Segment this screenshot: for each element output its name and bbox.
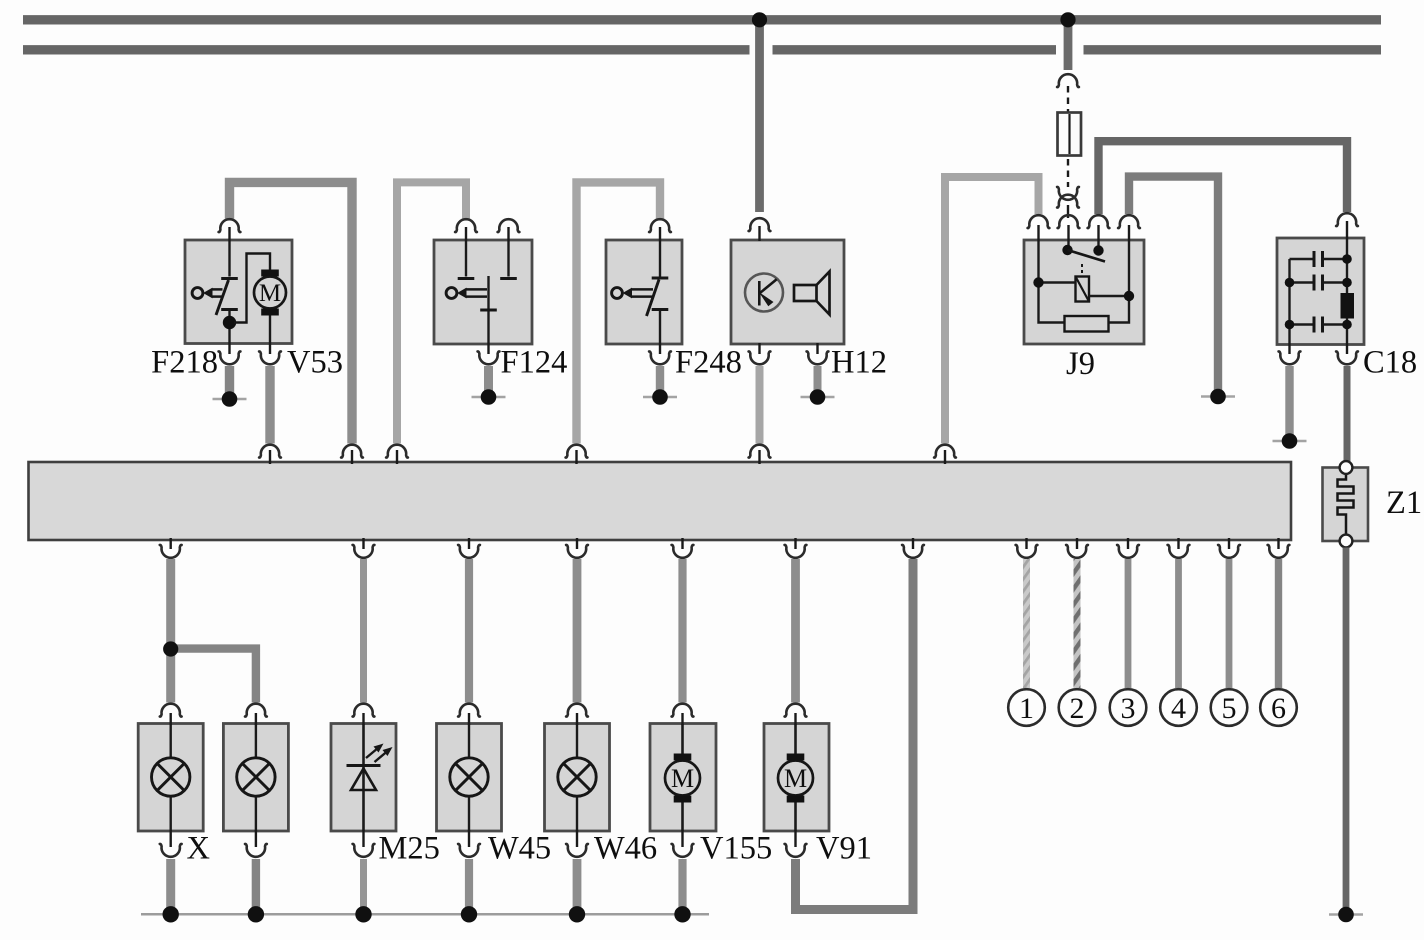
heater meander symbol Z1: [1338, 473, 1354, 536]
wire: W45 to ground bus: [465, 859, 473, 913]
lamp W45 symbol: [450, 758, 488, 796]
ground splice below F248: [643, 389, 677, 405]
svg-text:F248: F248: [675, 345, 742, 381]
wire: motor V91 return to control unit: [796, 559, 914, 910]
switch blade F248: [647, 280, 660, 317]
wire: branch to second tail lamp: [171, 649, 256, 703]
wire: F124 switch feed loop from control unit: [397, 182, 466, 443]
lamp W46 symbol: [558, 758, 596, 796]
connector: C18 bottom-right terminal: [1336, 351, 1358, 364]
svg-text:C18: C18: [1363, 345, 1417, 381]
wire: C18 to ground splice: [1285, 366, 1293, 435]
actuator key F124: [446, 288, 487, 299]
contact bar F218 upper: [221, 277, 238, 280]
pin: H12 output left: [758, 343, 760, 354]
ground splice below F124: [472, 389, 506, 405]
pin: C18 right bus lower: [1346, 318, 1348, 354]
pin: C18 input lead: [1346, 221, 1348, 295]
pin: F248 output: [659, 311, 661, 354]
svg-text:H12: H12: [831, 345, 887, 381]
junction: ground bus at M25: [355, 906, 371, 922]
connector: F124 top-left terminal: [455, 219, 477, 232]
svg-text:M: M: [259, 280, 281, 307]
pin: V53 motor output: [269, 316, 271, 355]
connector: component top terminal: [353, 704, 375, 725]
wire: lead to plug 3: [1125, 559, 1132, 688]
junction: ground bus at X: [163, 906, 179, 922]
wire: coil left lead (internal): [1039, 281, 1076, 283]
pin: H12 output right: [816, 343, 818, 354]
svg-text:M: M: [671, 764, 694, 793]
connector: control unit bottom terminal (plug 4): [1168, 538, 1190, 558]
switch F248 enclosure: [606, 240, 682, 344]
connector: component bottom terminal: [566, 830, 588, 857]
svg-text:V91: V91: [816, 831, 872, 867]
connector: J9 terminal 1: [1028, 215, 1050, 228]
control unit J519 (onboard supply) bar: [29, 462, 1292, 540]
suppressor C18 enclosure: [1277, 238, 1364, 345]
connector: control unit bottom terminal (plug 3): [1117, 538, 1139, 558]
actuator key F248: [612, 288, 653, 299]
svg-text:F124: F124: [501, 345, 568, 381]
connector: component bottom terminal: [160, 830, 182, 857]
svg-text:M: M: [784, 764, 807, 793]
dashed actuator link J9: [1081, 264, 1083, 276]
contact bar F218 lower: [221, 308, 238, 311]
connector: V53 bottom terminal: [259, 351, 281, 364]
connector: component bottom terminal: [245, 830, 267, 857]
plug terminal 6: [1260, 689, 1297, 726]
pin: F218 switch input: [228, 227, 230, 277]
node: C18 right middle: [1342, 278, 1352, 288]
horn / gauge H12 enclosure: [731, 240, 844, 344]
connector: component top terminal: [566, 704, 588, 725]
wire: plus bus (top rail 2), right segment: [1084, 45, 1382, 54]
wire: control unit to lamp X: [166, 559, 175, 703]
connector: component top terminal: [672, 704, 694, 725]
node: Z1 top terminal: [1340, 461, 1353, 474]
relay J9 enclosure: [1024, 240, 1144, 344]
contact bar F124 center: [480, 308, 497, 311]
pin: lamp X leads: [169, 724, 171, 759]
connector: F248 top terminal: [649, 219, 671, 232]
connector: component top terminal: [458, 704, 480, 725]
wire: F218 switch feed loop from control unit: [230, 182, 353, 443]
ground splice below J9 terminal 4: [1201, 389, 1235, 405]
plug terminal 2: [1059, 689, 1096, 726]
wire: J9 terminal 4 to ground splice: [1129, 177, 1218, 390]
wire: F218 to ground splice: [225, 366, 234, 393]
connector: control unit bottom terminal (lamp W45): [458, 538, 480, 558]
heater element Z1 enclosure: [1323, 468, 1369, 542]
node: C18 left middle: [1285, 278, 1295, 288]
fuse S (in-line fuse for J9): [1058, 113, 1082, 156]
svg-text:W46: W46: [594, 831, 657, 867]
pin: F124 right contact: [507, 227, 509, 277]
connector: H12 bottom-right terminal: [807, 351, 829, 364]
wire: striped lead to plug 2: [1074, 559, 1081, 688]
ground splice below F218: [213, 391, 247, 407]
connector: control unit bottom terminal (lamp X): [160, 538, 182, 558]
connector: control unit top terminal (J9 loop): [934, 445, 956, 464]
gauge dial symbol in H12: [745, 274, 783, 312]
wire: coil right lead (internal): [1089, 295, 1129, 297]
junction: ground bus at lamp2: [248, 906, 264, 922]
tail lamp X enclosure: [138, 724, 203, 832]
connector: F248 bottom terminal: [649, 351, 671, 364]
actuator key F218: [192, 288, 222, 299]
pin: F124 left contact: [465, 227, 467, 277]
connector: control unit top terminal (F218 loop): [341, 445, 363, 464]
switch F218 / pump motor V53 enclosure: [185, 240, 292, 344]
pin: J9 terminal 3 lead: [1097, 225, 1099, 251]
wire: control unit to motor V91: [791, 559, 800, 703]
svg-text:J9: J9: [1066, 346, 1095, 382]
junction on rail 1 at J9 feed: [1060, 12, 1075, 27]
node: J9 pin4 to coil: [1124, 291, 1134, 301]
node: J9 common contact: [1062, 245, 1072, 255]
pin: H12 input: [758, 226, 760, 241]
svg-text:V53: V53: [287, 345, 343, 381]
wire: ground bus (bottom rail): [141, 913, 709, 916]
wire: M25 to ground bus: [360, 859, 367, 913]
wire: supply drop to horn H12: [755, 20, 764, 212]
plug terminal 1: [1008, 689, 1045, 726]
svg-text:4: 4: [1171, 692, 1186, 725]
connector: component top terminal: [785, 704, 807, 725]
connector: control unit bottom terminal (plug 2): [1066, 538, 1088, 558]
lamp W45 enclosure: [437, 724, 502, 832]
wire: lead to plug 5: [1226, 559, 1233, 688]
svg-text:Z1: Z1: [1386, 485, 1422, 521]
node: C18 right bottom: [1342, 320, 1352, 330]
pin: J9 terminal 1 lead: [1039, 225, 1065, 323]
connector: control unit bottom terminal (lamp W46): [566, 538, 588, 558]
wire: fuse to connector pair (dashed): [1067, 159, 1069, 187]
connector: J9 terminal 4: [1118, 215, 1140, 228]
motor V53 symbol: [254, 270, 286, 316]
connector: F218 top terminal: [219, 219, 241, 232]
wire: control unit to lamp W45: [465, 559, 473, 703]
wire: supply drop to fuse for relay J9: [1064, 20, 1073, 70]
connector: component bottom terminal: [672, 830, 694, 857]
node: tail lamp branch junction: [163, 641, 178, 656]
switch blade F218: [216, 280, 229, 315]
contact bar F124 right: [500, 277, 517, 280]
pin: F218 switch output: [228, 311, 230, 354]
svg-text:2: 2: [1070, 692, 1085, 725]
capacitor Cc in C18 (bottom): [1290, 317, 1348, 333]
connector: H12 top terminal: [749, 218, 771, 231]
connector above fuse: [1057, 74, 1079, 87]
wire: lead to plug 6: [1275, 559, 1282, 688]
ground splice below C18: [1273, 433, 1307, 449]
connector: component top terminal: [160, 704, 182, 725]
connector: J9 terminal 2: [1058, 215, 1080, 228]
svg-text:F218: F218: [151, 345, 218, 381]
pin: J9 terminal 4 lead: [1109, 225, 1130, 323]
svg-text:6: 6: [1271, 692, 1286, 725]
connector: F218 bottom terminal: [219, 351, 241, 364]
pin: W46 leads: [576, 724, 578, 759]
lamp X symbol: [152, 758, 190, 796]
node: J9 fixed contact: [1093, 245, 1103, 255]
plug terminal 3: [1110, 689, 1147, 726]
contact bar F248 lower: [652, 308, 669, 311]
connector: C18 top terminal: [1336, 213, 1358, 226]
node: F218 output junction: [223, 316, 236, 329]
connector: H12 bottom-left terminal: [749, 351, 771, 364]
second tail lamp symbol: [237, 758, 275, 796]
wire: W46 to ground bus: [573, 859, 582, 913]
relay coil J9: [1076, 277, 1090, 302]
motor V91 enclosure: [764, 724, 829, 832]
connector: component top terminal: [245, 704, 267, 725]
connector: F124 bottom terminal: [478, 351, 500, 364]
wire: control unit to LED M25: [360, 559, 367, 703]
ground splice below H12: [801, 389, 835, 405]
connector: control unit bottom terminal (plug 1): [1016, 538, 1038, 558]
plug terminal 4: [1160, 689, 1197, 726]
connector: control unit top terminal (F248 loop): [566, 445, 588, 464]
wire: plus bus (top rail 2), left segment: [23, 45, 750, 54]
pin: F124 movable contact to output: [487, 276, 489, 354]
contact bar F248 upper: [652, 276, 669, 279]
wire: horn H12 to control unit: [756, 366, 764, 444]
wire: C18 left bus (internal): [1288, 259, 1290, 354]
wire: C18 to heater Z1: [1344, 366, 1351, 462]
capacitor Ca in C18 (top): [1290, 251, 1348, 267]
pin: V91 leads: [794, 724, 797, 754]
pin: M25 lead: [362, 724, 365, 831]
resistor in J9: [1065, 316, 1109, 332]
connector: component bottom terminal: [458, 830, 480, 857]
connector: control unit top terminal (H12): [749, 445, 771, 464]
LED diode symbol M25: [347, 766, 381, 791]
switch F124 enclosure: [434, 240, 532, 344]
connector: control unit top terminal (F124 loop): [386, 445, 408, 464]
wire: J9 terminal 3 to suppressor C18: [1099, 141, 1348, 214]
svg-text:M25: M25: [379, 831, 440, 867]
junction: ground bus at W45: [461, 906, 477, 922]
plug terminal 5: [1211, 689, 1248, 726]
junction on rail 1 at H12 feed: [752, 12, 767, 27]
pin: V155 leads: [681, 724, 684, 754]
connector: control unit top terminal (V53): [259, 445, 281, 464]
connector pair in J9 feed: [1057, 187, 1079, 200]
pin: F248 input: [659, 227, 661, 277]
node: Z1 bottom terminal: [1340, 535, 1353, 548]
wire: pump V53 to control unit: [265, 366, 274, 444]
connector: F124 top-right terminal: [498, 219, 520, 232]
pin: J9 terminal 2 lead: [1067, 225, 1069, 250]
connector: C18 bottom-left terminal: [1279, 351, 1301, 364]
node: C18 right top: [1342, 254, 1352, 264]
tail lamp (second) enclosure: [223, 724, 288, 832]
wire: H12 to ground splice: [814, 366, 822, 391]
svg-text:5: 5: [1222, 692, 1237, 725]
svg-text:W45: W45: [488, 831, 551, 867]
connector: component bottom terminal: [353, 830, 375, 857]
junction: ground bus at V155: [674, 906, 690, 922]
wire: control unit to motor V155: [678, 559, 686, 703]
relay switch blade J9: [1068, 250, 1106, 262]
lamp W46 enclosure: [545, 724, 610, 832]
connector: control unit bottom terminal (plug 6): [1268, 538, 1290, 558]
wire: F248 switch feed loop from control unit: [577, 182, 661, 443]
node: J9 pin1 to coil: [1033, 277, 1043, 287]
wire: lead to plug 4: [1175, 559, 1182, 688]
wire: junction to motor V53 (internal): [234, 254, 270, 323]
connector: component bottom terminal: [785, 830, 807, 857]
motor V91 symbol: [778, 754, 813, 803]
node: C18 left bottom: [1285, 320, 1295, 330]
LED M25 enclosure: [331, 724, 396, 832]
motor V155 enclosure: [650, 724, 716, 832]
svg-text:1: 1: [1019, 692, 1034, 725]
connector: J9 terminal 3: [1088, 215, 1110, 228]
capacitor Cb in C18 (middle): [1290, 275, 1348, 291]
LED arrows M25: [366, 744, 393, 763]
pin: W45 leads: [468, 724, 470, 759]
wire: fuse lead (dashed): [1067, 86, 1069, 113]
wire: control unit to J9 terminal 1: [945, 177, 1039, 444]
wire: F248 to ground splice: [656, 366, 664, 391]
pin: connector pair to J9 terminal: [1067, 205, 1069, 218]
wire: battery plus bus (top rail 1): [23, 15, 1381, 24]
connector: control unit bottom terminal (plug 5): [1218, 538, 1240, 558]
ground splice below Z1: [1329, 907, 1363, 923]
wire: F124 to ground splice: [484, 366, 493, 391]
wire: plus bus (top rail 2), middle segment: [773, 45, 1057, 54]
connector: control unit bottom terminal (V91 return): [902, 538, 924, 558]
wire: second lamp to ground bus: [252, 859, 260, 913]
svg-text:V155: V155: [700, 831, 772, 867]
wire: control unit to lamp W46: [573, 559, 582, 703]
connector: control unit bottom terminal (motor V91): [785, 538, 807, 558]
choke in C18: [1341, 293, 1355, 319]
motor V155 symbol: [665, 754, 700, 803]
svg-text:3: 3: [1121, 692, 1136, 725]
contact bar F124 left: [458, 277, 475, 280]
connector: control unit bottom terminal (motor V155): [672, 538, 694, 558]
connector: control unit bottom terminal (LED M25): [353, 538, 375, 558]
loudspeaker symbol in H12: [794, 272, 830, 315]
wire: V155 to ground bus: [678, 859, 686, 913]
wire: lamp X to ground bus: [166, 859, 175, 913]
svg-text:X: X: [187, 831, 210, 867]
junction: ground bus at W46: [569, 906, 585, 922]
pin: second lamp leads: [255, 724, 257, 759]
wire: striped lead to plug 1: [1023, 559, 1030, 688]
wire: Z1 to bottom ground splice: [1343, 548, 1350, 911]
